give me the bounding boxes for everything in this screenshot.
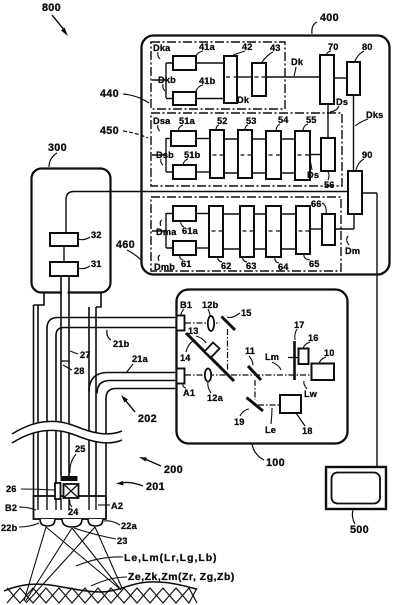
tube T1 walls xyxy=(34,305,39,496)
axis 15 down xyxy=(227,329,229,370)
svg-text:43: 43 xyxy=(270,43,281,53)
svg-text:10: 10 xyxy=(324,348,335,358)
svg-text:24: 24 xyxy=(68,507,79,517)
surface wave xyxy=(4,582,196,592)
wire 65-66 xyxy=(310,228,322,230)
wire 51a-52 xyxy=(196,138,210,140)
mirror 11 xyxy=(248,366,261,380)
B1 pipe stub xyxy=(176,318,177,328)
axis 11 down xyxy=(254,380,256,400)
block 61 xyxy=(173,241,196,255)
svg-text:Le: Le xyxy=(265,425,276,435)
block 64 xyxy=(266,206,281,257)
wire 42-43 xyxy=(237,76,252,78)
svg-text:Ds: Ds xyxy=(336,97,348,107)
lens 12b xyxy=(208,316,214,331)
block 16 xyxy=(299,349,309,365)
block 10 xyxy=(312,364,335,381)
wires 64-65 xyxy=(281,214,296,249)
valve 25 black bar xyxy=(61,476,78,481)
spray fan xyxy=(24,527,122,603)
wire 70-80 xyxy=(334,77,347,79)
head body xyxy=(34,496,107,519)
valve 26 xyxy=(55,483,61,499)
svg-text:Dk: Dk xyxy=(291,57,304,67)
svg-text:54: 54 xyxy=(278,115,289,125)
wire 41b-42 xyxy=(196,98,224,100)
svg-text:63: 63 xyxy=(246,261,257,271)
wire 61a-62 xyxy=(196,213,209,215)
svg-text:53: 53 xyxy=(246,116,257,126)
wire 70 down to 56 xyxy=(327,104,329,138)
svg-text:Dma: Dma xyxy=(156,227,177,237)
axis B1 xyxy=(185,322,220,324)
plate 17 xyxy=(293,341,296,380)
svg-text:460: 460 xyxy=(116,239,135,251)
svg-text:A1: A1 xyxy=(183,388,195,398)
dash-dot frame 460 xyxy=(151,197,341,271)
wire 90 out to 500 xyxy=(362,193,377,467)
block 41a xyxy=(173,56,196,70)
wire 55-56 xyxy=(310,154,321,156)
svg-text:12b: 12b xyxy=(202,300,219,310)
svg-text:28: 28 xyxy=(74,366,85,376)
block 32 xyxy=(50,233,78,246)
wire input bus xyxy=(152,138,173,172)
wires 62-63 xyxy=(223,214,240,249)
surface crosshatch xyxy=(7,588,197,603)
plumbing xyxy=(12,276,183,500)
svg-text:90: 90 xyxy=(362,150,373,160)
svg-text:Dka: Dka xyxy=(153,43,171,53)
block 66 xyxy=(322,214,335,245)
mirror 15 xyxy=(222,317,236,331)
svg-text:22b: 22b xyxy=(1,523,18,533)
block 55 xyxy=(295,131,310,180)
svg-text:100: 100 xyxy=(266,457,285,469)
wire input bus xyxy=(152,63,173,99)
block 18 xyxy=(280,395,301,413)
svg-text:Dkb: Dkb xyxy=(158,75,176,85)
wire 51b-52 xyxy=(196,171,210,173)
junction tick 28 xyxy=(61,360,69,362)
lens 12a xyxy=(205,369,211,382)
block 54 xyxy=(266,131,281,179)
svg-text:55: 55 xyxy=(306,115,317,125)
block 56 xyxy=(321,138,335,171)
svg-text:Dsb: Dsb xyxy=(156,150,174,160)
svg-text:Lw: Lw xyxy=(304,389,318,399)
wire 80 down to 90 xyxy=(353,95,355,171)
dash-dot frame 450 xyxy=(151,113,342,186)
svg-text:65: 65 xyxy=(309,259,320,269)
right column 70 80 90 xyxy=(320,42,383,467)
nozzle 22a xyxy=(88,519,103,526)
valve 25 cross box xyxy=(64,484,79,498)
wire 66 out to 90 xyxy=(335,214,354,229)
pipe 21b to B1 xyxy=(47,318,178,497)
svg-text:23: 23 xyxy=(117,536,128,546)
block 51a xyxy=(171,131,196,146)
svg-text:26: 26 xyxy=(6,484,17,494)
svg-text:62: 62 xyxy=(221,261,232,271)
svg-text:21a: 21a xyxy=(132,354,149,364)
svg-text:Ze,Zk,Zm(Zr, Zg,Zb): Ze,Zk,Zm(Zr, Zg,Zb) xyxy=(128,572,235,583)
block 62 xyxy=(209,206,223,257)
svg-text:41a: 41a xyxy=(199,42,216,52)
svg-text:21b: 21b xyxy=(113,339,130,349)
svg-text:202: 202 xyxy=(138,413,157,425)
svg-text:A2: A2 xyxy=(111,501,123,511)
svg-text:Dmb: Dmb xyxy=(154,262,175,272)
mirror 19 xyxy=(247,398,264,412)
svg-text:450: 450 xyxy=(100,125,119,137)
svg-text:400: 400 xyxy=(320,12,339,24)
svg-text:32: 32 xyxy=(91,230,102,240)
enclosure 400 xyxy=(66,12,390,275)
svg-text:66: 66 xyxy=(311,199,322,209)
svg-text:440: 440 xyxy=(100,88,119,100)
block 80 xyxy=(347,62,360,95)
block 31 xyxy=(50,262,78,276)
svg-text:25: 25 xyxy=(75,444,86,454)
svg-text:15: 15 xyxy=(241,308,252,318)
wire 41a-42 xyxy=(196,62,224,64)
neck under 300 xyxy=(34,293,102,307)
svg-text:31: 31 xyxy=(91,259,102,269)
block 42 xyxy=(224,56,237,103)
svg-text:800: 800 xyxy=(42,2,61,14)
svg-text:200: 200 xyxy=(164,464,183,476)
block 41b xyxy=(173,92,196,105)
svg-text:52: 52 xyxy=(217,116,228,126)
wires 53-54 xyxy=(252,139,266,173)
svg-text:64: 64 xyxy=(278,262,289,272)
axis A1 xyxy=(185,374,311,376)
svg-text:61: 61 xyxy=(181,259,192,269)
svg-text:56: 56 xyxy=(324,180,335,190)
svg-text:B1: B1 xyxy=(180,300,192,310)
svg-text:Dm: Dm xyxy=(345,246,360,256)
wire 32-31 xyxy=(63,246,65,262)
svg-text:14: 14 xyxy=(180,353,191,363)
wires 54-55 xyxy=(281,139,295,173)
block 61a xyxy=(173,206,196,221)
svg-text:11: 11 xyxy=(245,346,255,356)
svg-text:Dsa: Dsa xyxy=(153,116,171,126)
svg-text:Dk: Dk xyxy=(237,95,250,105)
svg-text:Le,Lm(Lr,Lg,Lb): Le,Lm(Lr,Lg,Lb) xyxy=(124,553,218,564)
svg-text:22a: 22a xyxy=(121,521,138,531)
block 53 xyxy=(238,130,252,178)
block 70 xyxy=(320,55,334,104)
label 800 xyxy=(42,2,68,36)
svg-text:13: 13 xyxy=(188,326,199,336)
wires 63-64 xyxy=(254,214,266,249)
svg-text:41b: 41b xyxy=(199,76,216,86)
svg-text:16: 16 xyxy=(308,333,319,343)
block 51b xyxy=(173,165,196,179)
inner tube ends xyxy=(38,496,96,510)
box 300 xyxy=(32,142,111,293)
box 500 xyxy=(326,467,386,536)
dash-dot frame 440 xyxy=(151,42,285,109)
tube from 31 xyxy=(62,277,68,299)
svg-text:51a: 51a xyxy=(179,116,196,126)
plate 13 xyxy=(205,343,220,358)
nozzle 23 xyxy=(62,519,82,527)
box 100 optics xyxy=(176,290,348,470)
block 52 xyxy=(210,130,224,178)
unit 450 xyxy=(151,113,342,190)
svg-text:17: 17 xyxy=(294,320,305,330)
inner pipe 202 xyxy=(106,389,177,501)
svg-text:61a: 61a xyxy=(182,226,199,236)
nozzle 22b xyxy=(40,519,55,526)
svg-text:51b: 51b xyxy=(184,150,201,160)
wavy break xyxy=(12,421,122,443)
axis 19 to 18 xyxy=(258,404,280,406)
wires 52-53 xyxy=(224,139,238,173)
svg-text:19: 19 xyxy=(234,417,245,427)
svg-text:Ds: Ds xyxy=(307,170,319,180)
unit 460 xyxy=(151,197,360,272)
wire input bus xyxy=(152,213,173,248)
spray head xyxy=(1,444,235,603)
svg-text:201: 201 xyxy=(146,481,165,493)
wire Dk 43-70 xyxy=(266,76,320,78)
beamsplitter 14 xyxy=(186,333,234,381)
A1 pipe stub xyxy=(177,369,185,384)
unit 440 xyxy=(151,42,320,109)
wire 400 to 300 xyxy=(66,192,348,234)
svg-text:Dks: Dks xyxy=(366,110,383,120)
block 63 xyxy=(240,206,254,257)
svg-text:12a: 12a xyxy=(207,393,224,403)
svg-text:80: 80 xyxy=(362,42,373,52)
svg-text:Lm: Lm xyxy=(265,352,279,362)
svg-text:18: 18 xyxy=(302,426,313,436)
svg-text:300: 300 xyxy=(48,142,67,154)
wire 61-62 xyxy=(196,247,209,249)
svg-text:27: 27 xyxy=(80,350,91,360)
block 90 xyxy=(348,171,362,214)
svg-text:500: 500 xyxy=(350,524,369,536)
svg-text:70: 70 xyxy=(328,42,339,52)
block 65 xyxy=(296,206,310,254)
svg-text:B2: B2 xyxy=(5,503,17,513)
pipe 21a to A1 xyxy=(89,307,96,496)
block 43 xyxy=(252,63,266,96)
svg-text:42: 42 xyxy=(242,42,253,52)
